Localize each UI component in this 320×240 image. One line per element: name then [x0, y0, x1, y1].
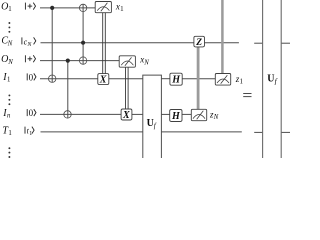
- wire T1 segment left: [41, 131, 143, 133]
- svg-text:N: N: [7, 40, 13, 47]
- wire O1: [40, 7, 95, 9]
- svg-text:1: 1: [7, 77, 10, 84]
- measurement meter zN on In: [191, 109, 206, 120]
- wire ON: [40, 60, 119, 62]
- ket |0> on In: [27, 108, 36, 118]
- wire CN segment left: [41, 42, 194, 44]
- multi-qubit gate Uf (middle): [143, 75, 162, 158]
- vertical CNOT line ON control to In target: [67, 61, 69, 119]
- H gate on I1: [170, 73, 182, 85]
- Z gate on CN (classically controlled): [194, 36, 205, 48]
- wire CN stub out of right Uf: [281, 42, 290, 44]
- control dot on ON: [66, 59, 70, 63]
- ket |cN> on CN: [22, 37, 36, 48]
- wire I1 segment X to Uf: [109, 78, 143, 80]
- CNOT target on O1: [79, 4, 86, 11]
- measurement meter x1 on O1: [95, 2, 111, 13]
- classical double wire xN meter to X gate: [126, 67, 129, 109]
- wire In segment left: [40, 113, 121, 115]
- vertical dots below T1: [8, 147, 10, 158]
- svg-text:0: 0: [29, 108, 34, 118]
- wire T1 segment Uf to equals: [161, 131, 241, 133]
- wire CN segment after Z: [205, 42, 239, 44]
- vertical dots between I1 and In: [8, 94, 10, 105]
- svg-text:U: U: [147, 118, 154, 129]
- ket |t1> on T1: [25, 127, 34, 138]
- wire I1 segment Uf to H: [161, 78, 170, 80]
- classical double wire x1 meter to X gate: [103, 13, 106, 74]
- svg-text:1: 1: [120, 5, 124, 13]
- ket |+> on ON: [25, 55, 35, 62]
- measurement meter xN on ON: [119, 56, 135, 67]
- vertical CNOT line O1 control to I1 target: [51, 8, 53, 83]
- svg-text:1: 1: [240, 78, 244, 86]
- svg-text:U: U: [267, 73, 274, 84]
- equivalent gate Uf (right), cropped tall box: [263, 0, 282, 158]
- wire CN stub into right Uf: [254, 42, 262, 44]
- wire T1 stub out of right Uf: [281, 131, 290, 133]
- svg-text:X: X: [122, 110, 130, 121]
- svg-text:N: N: [7, 59, 13, 66]
- H gate on In: [170, 110, 182, 122]
- ket |0> on I1: [27, 72, 36, 82]
- classical grey wire z1 to top edge: [221, 0, 224, 74]
- CNOT target on In: [64, 111, 71, 118]
- svg-text:0: 0: [29, 72, 34, 82]
- svg-text:Z: Z: [195, 38, 202, 48]
- wire I1 segment H to meter: [182, 78, 215, 80]
- svg-text:1: 1: [8, 130, 11, 137]
- svg-text:H: H: [171, 111, 181, 122]
- svg-text:1: 1: [29, 131, 32, 137]
- svg-text:N: N: [213, 114, 219, 121]
- vertical dots between O1 and CN: [8, 22, 10, 33]
- svg-text:H: H: [171, 75, 181, 86]
- svg-text:X: X: [99, 75, 107, 86]
- wire In segment X to Uf: [132, 113, 143, 115]
- ket |+> on O1: [25, 3, 35, 10]
- wire In segment H to meter: [182, 113, 191, 115]
- classical grey wire Z gate to zN meter: [197, 47, 200, 109]
- svg-text:n: n: [7, 112, 11, 119]
- control dot on O1: [50, 6, 54, 10]
- wire T1 stub into right Uf: [254, 131, 262, 133]
- measurement meter z1 on I1: [215, 74, 230, 86]
- vertical CNOT line CN control to O1 and ON targets: [82, 4, 84, 64]
- wire In segment Uf to H: [161, 113, 169, 115]
- svg-text:N: N: [26, 42, 32, 48]
- wire I1 segment left: [40, 78, 98, 80]
- equals sign: [243, 94, 251, 97]
- CNOT target on ON: [79, 57, 86, 64]
- control dot on CN: [81, 41, 85, 45]
- CNOT target on I1: [49, 75, 56, 82]
- svg-text:N: N: [143, 60, 149, 67]
- X gate on I1 (classically controlled): [98, 74, 109, 86]
- svg-text:f: f: [275, 76, 278, 85]
- svg-text:1: 1: [8, 6, 11, 13]
- X gate on In (classically controlled): [121, 109, 132, 121]
